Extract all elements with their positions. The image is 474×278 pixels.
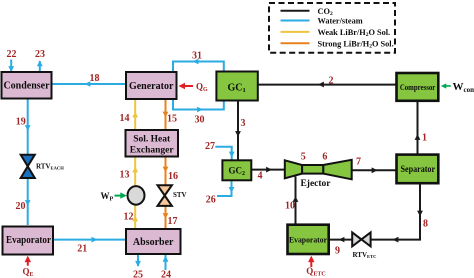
box Compressor xyxy=(397,73,439,101)
svg-text:Condenser: Condenser xyxy=(3,81,50,92)
box Evaporator left xyxy=(3,227,54,255)
wire 15 strong solution xyxy=(163,99,169,130)
legend CO2 line xyxy=(281,7,333,17)
svg-text:Separator: Separator xyxy=(401,164,436,174)
heat Q_E xyxy=(23,256,34,278)
wire 26 xyxy=(217,180,234,196)
svg-text:Evaporator: Evaporator xyxy=(289,235,327,245)
svg-text:24: 24 xyxy=(161,270,171,278)
wire 10 xyxy=(293,177,299,225)
wire 25 xyxy=(135,254,141,267)
valve RTV_EACH xyxy=(21,155,65,178)
work W_comp xyxy=(441,81,474,94)
svg-text:5: 5 xyxy=(301,152,306,163)
wire 12 weak solution xyxy=(132,205,138,229)
wire 21 xyxy=(53,237,126,243)
svg-text:21: 21 xyxy=(77,244,87,255)
svg-text:1: 1 xyxy=(422,133,427,144)
svg-text:30: 30 xyxy=(195,115,205,126)
svg-text:4: 4 xyxy=(258,171,263,182)
svg-text:12: 12 xyxy=(124,212,134,223)
wire 23 xyxy=(37,61,43,72)
wire 27 xyxy=(215,147,234,161)
svg-text:31: 31 xyxy=(192,51,202,62)
heat Q_G xyxy=(179,82,209,94)
svg-text:Weak LiBr/H2O Sol.: Weak LiBr/H2O Sol. xyxy=(318,28,391,38)
svg-text:26: 26 xyxy=(206,195,216,206)
svg-text:19: 19 xyxy=(16,117,26,128)
svg-text:8: 8 xyxy=(423,219,428,230)
svg-text:Evaporator: Evaporator xyxy=(6,235,51,246)
svg-text:14: 14 xyxy=(120,113,130,124)
svg-text:Absorber: Absorber xyxy=(133,237,174,248)
wire 31 water loop generator-GC1 xyxy=(173,59,224,112)
svg-text:20: 20 xyxy=(16,201,26,212)
wire 18 xyxy=(53,81,127,86)
legend weak line xyxy=(281,28,391,38)
valve RTV_ETC xyxy=(352,232,376,259)
legend water line xyxy=(281,17,363,26)
wire 8 xyxy=(371,183,423,242)
svg-text:Generator: Generator xyxy=(129,81,174,92)
wire 22 xyxy=(8,60,14,73)
svg-text:2: 2 xyxy=(329,76,334,87)
box Evaporator right xyxy=(288,225,329,254)
svg-text:3: 3 xyxy=(241,118,246,129)
svg-text:16: 16 xyxy=(168,171,178,182)
box GC1 xyxy=(216,72,257,101)
svg-text:STV: STV xyxy=(173,191,187,199)
wire 19-20 xyxy=(25,99,31,226)
wire 1 xyxy=(415,101,421,155)
wire 9 xyxy=(329,237,352,242)
svg-text:Sol. Heat: Sol. Heat xyxy=(133,135,171,145)
svg-text:13: 13 xyxy=(120,170,130,181)
wire 7 xyxy=(352,167,398,173)
svg-text:Water/steam: Water/steam xyxy=(318,17,363,26)
valve STV xyxy=(158,185,187,206)
heat Q_ETC xyxy=(306,256,325,278)
svg-text:9: 9 xyxy=(335,246,340,257)
svg-text:17: 17 xyxy=(168,216,178,227)
box Absorber xyxy=(126,229,181,254)
svg-text:25: 25 xyxy=(133,270,143,278)
svg-text:7: 7 xyxy=(356,157,361,168)
svg-text:23: 23 xyxy=(35,49,45,60)
wire 14 weak solution xyxy=(132,99,138,130)
svg-text:15: 15 xyxy=(167,114,177,125)
svg-text:Strong LiBr/H2O Sol.: Strong LiBr/H2O Sol. xyxy=(318,39,394,49)
svg-text:27: 27 xyxy=(205,141,215,152)
svg-text:6: 6 xyxy=(322,152,327,163)
legend box xyxy=(269,3,395,53)
wire 3 xyxy=(235,101,241,161)
box Condenser xyxy=(2,72,52,99)
box Generator xyxy=(126,72,177,99)
svg-text:18: 18 xyxy=(90,73,100,84)
legend strong line xyxy=(281,39,394,49)
wire 13 weak solution xyxy=(132,157,138,187)
wire 16 strong solution xyxy=(163,157,169,186)
svg-text:Exchanger: Exchanger xyxy=(130,146,175,156)
wire 24 xyxy=(163,255,169,270)
svg-text:Compressor: Compressor xyxy=(400,82,436,92)
wire 2 xyxy=(258,82,398,88)
wire 17 strong solution xyxy=(163,206,169,229)
wire 4 xyxy=(251,167,285,173)
svg-text:Ejector: Ejector xyxy=(300,179,331,189)
ejector xyxy=(285,160,352,189)
svg-text:10: 10 xyxy=(285,201,295,212)
work W_P xyxy=(101,191,127,203)
svg-text:22: 22 xyxy=(7,49,17,60)
pump P xyxy=(128,186,145,205)
box Separator xyxy=(397,155,439,184)
box GC2 xyxy=(222,160,251,180)
box Sol. Heat Exchanger xyxy=(126,130,179,157)
